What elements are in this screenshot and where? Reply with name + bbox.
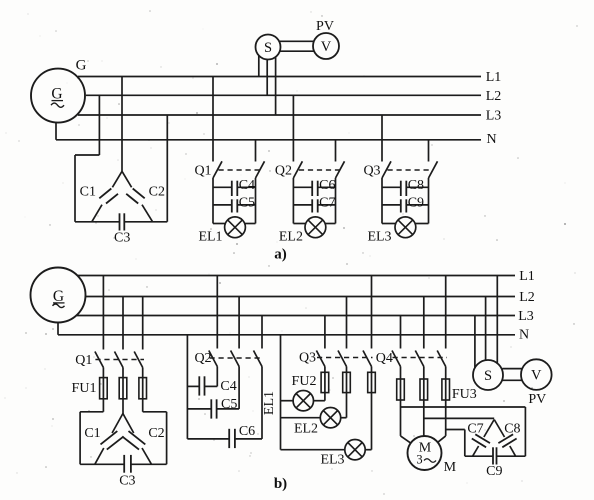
fuse FU3 pole 2 (420, 379, 428, 400)
lamp EL2 (b) (281, 393, 347, 428)
wire tap L1 to delta apex (a) (121, 77, 123, 172)
svg-text:C4: C4 (239, 178, 255, 193)
svg-text:Q4: Q4 (376, 351, 393, 366)
lamp EL3 (b) (281, 393, 372, 460)
wire Q2 left pole down (a) (292, 178, 294, 224)
lamp EL1 (213, 217, 256, 238)
selector switch S (a) (256, 35, 281, 60)
bus L1 (b) wire (77, 275, 515, 277)
svg-text:C8: C8 (408, 178, 424, 193)
wire N bracket for C4 C5 C6 (b) (186, 335, 188, 439)
svg-text:C9: C9 (408, 196, 424, 211)
switch Q2 (b) pole 1 wire+lever (209, 276, 218, 387)
capacitor C7 (293, 199, 335, 212)
capacitor C5 (b) (187, 399, 239, 418)
generator G (section a) (31, 69, 85, 123)
switch Q2 pole 1 (a) (293, 95, 302, 178)
svg-text:Q3: Q3 (363, 164, 380, 179)
svg-text:C3: C3 (119, 474, 135, 489)
svg-text:C5: C5 (239, 196, 255, 211)
wire S leads to L1 L2 L3 (a) (259, 56, 276, 115)
wire S leads to L1 L2 L3 (b) (475, 276, 497, 368)
capacitor C3 (b) (124, 455, 131, 473)
voltmeter V (b) PV (521, 359, 552, 390)
capacitor C7 (472, 420, 494, 457)
svg-text:C2: C2 (148, 426, 164, 441)
svg-text:C5: C5 (221, 397, 237, 412)
capacitor C9 (493, 447, 497, 464)
switch Q1 (b) pole 2 wire+lever (115, 297, 124, 378)
wire delta bottom (a) (75, 221, 167, 223)
capacitor C2 (122, 171, 153, 222)
capacitor C3 (120, 213, 125, 230)
fuse FU2 pole 1 (321, 372, 329, 392)
bus L3 (a) wire (78, 114, 481, 116)
svg-text:Q1: Q1 (75, 353, 92, 368)
svg-text:C3: C3 (114, 230, 130, 245)
svg-text:C7: C7 (467, 421, 483, 436)
switch Q3 pole 2 (a) (429, 140, 438, 178)
fuse FU2 pole 3 (368, 372, 376, 392)
svg-text:G: G (51, 85, 62, 102)
svg-text:S: S (484, 368, 492, 384)
selector switch S (b) (473, 360, 503, 390)
wire Q3 left pole down (a) (381, 178, 383, 224)
svg-text:L3: L3 (518, 309, 534, 324)
wire Q4 pole1 to motor and C-bank top (b) (401, 400, 526, 443)
svg-text:Q1: Q1 (194, 164, 211, 179)
capacitor C5 (213, 199, 256, 212)
switch Q3 dashed linkage (388, 169, 433, 171)
svg-text:EL2: EL2 (279, 229, 303, 244)
switch Q2 (b) pole 3 wire+lever (254, 316, 263, 439)
svg-text:C1: C1 (84, 426, 100, 441)
svg-text:EL3: EL3 (367, 229, 391, 244)
capacitor C8 (382, 181, 429, 196)
capacitor C9 (382, 199, 429, 212)
switch Q4 (b) dashed linkage (393, 357, 448, 359)
capacitor C6 (293, 181, 335, 196)
capacitor C4 (213, 181, 256, 196)
svg-text:L2: L2 (486, 89, 502, 104)
bus N (a) wire with drop from generator (56, 123, 481, 140)
svg-text:EL1: EL1 (198, 229, 222, 244)
svg-text:M: M (444, 460, 457, 475)
wire Q1 left pole down (a) (212, 178, 214, 224)
svg-text:Q2: Q2 (194, 351, 211, 366)
switch Q2 (b) pole 2 wire+lever (231, 297, 240, 409)
capacitor C8 (494, 420, 516, 457)
switch Q4 (b) pole 1 wire+lever (392, 316, 401, 380)
wire link S to V (b) (502, 369, 521, 381)
wire delta bottom (b) (80, 463, 167, 465)
svg-text:EL1: EL1 (262, 391, 277, 415)
wire tap L2 to delta left (a) (75, 95, 99, 222)
switch Q3 (b) pole 1 wire+lever (316, 316, 325, 373)
svg-text:V: V (531, 368, 542, 384)
switch Q3 (b) pole 3 wire+lever (363, 276, 372, 373)
motor M 3-phase (408, 436, 442, 470)
wire Q2 right pole down (a) (335, 178, 337, 224)
svg-text:EL2: EL2 (294, 421, 318, 436)
wire EL1 feeder from N (b) (280, 335, 282, 450)
wire Q3 right pole down (a) (428, 178, 430, 224)
svg-text:L3: L3 (486, 109, 502, 124)
switch Q1 (b) dashed linkage (95, 359, 144, 361)
fuse FU1 pole 3 (139, 378, 147, 399)
wire C-bank bottom (b) (465, 455, 526, 457)
svg-text:PV: PV (528, 392, 546, 407)
svg-text:S: S (264, 40, 272, 56)
generator G (section b) (31, 268, 86, 323)
svg-text:L2: L2 (519, 290, 535, 305)
switch Q1 pole 1 (a) (213, 77, 222, 179)
svg-text:C8: C8 (504, 421, 520, 436)
capacitor C6 (b) (187, 429, 262, 448)
wire Q1 right pole down (a) (255, 178, 257, 224)
svg-text:Q2: Q2 (275, 164, 292, 179)
switch Q1 pole 2 (a) (256, 140, 265, 178)
capacitor C1 (92, 171, 122, 222)
svg-text:C6: C6 (319, 178, 335, 193)
bus L2 (b) wire (86, 296, 516, 298)
switch Q4 (b) pole 2 wire+lever (415, 297, 424, 380)
switch Q2 pole 2 (a) (336, 140, 345, 178)
svg-text:FU1: FU1 (72, 381, 97, 396)
fuse FU3 pole 1 (397, 379, 405, 400)
svg-text:FU3: FU3 (452, 387, 477, 402)
svg-text:FU2: FU2 (292, 374, 317, 389)
svg-text:PV: PV (316, 19, 334, 34)
lamp EL2 (293, 217, 335, 238)
svg-text:Q3: Q3 (299, 351, 316, 366)
switch Q2 dashed linkage (299, 169, 340, 171)
svg-text:C6: C6 (239, 424, 255, 439)
fuse FU2 pole 2 (343, 372, 351, 392)
switch Q1 dashed linkage (219, 169, 260, 171)
switch Q4 (b) pole 3 wire+lever (437, 276, 446, 380)
wire Q4 pole2 to motor and apex (b) (424, 400, 494, 436)
svg-text:L1: L1 (486, 70, 502, 85)
svg-text:C1: C1 (80, 185, 96, 200)
wire tap L3 to delta right (a) (166, 115, 168, 222)
switch Q1 (b) pole 1 wire+lever (95, 276, 104, 378)
svg-text:G: G (76, 57, 87, 73)
wire fuse1 to delta box left (b) (80, 399, 103, 465)
fuse FU3 pole 3 (442, 379, 450, 400)
wire C-bank right edge (b) (524, 407, 526, 456)
svg-text:N: N (519, 327, 529, 342)
bus L2 (a) wire (86, 94, 481, 96)
svg-text:EL3: EL3 (320, 453, 344, 468)
svg-text:C7: C7 (319, 196, 335, 211)
wire fuse2 to delta apex (b) (122, 399, 124, 414)
wire fuse3 to delta box right (b) (143, 399, 167, 465)
capacitor C1 (b) (95, 414, 124, 465)
capacitor C2 (b) (122, 414, 151, 465)
wire C-bank left edge (b) (464, 430, 466, 457)
svg-text:3: 3 (416, 453, 422, 467)
switch Q1 (b) pole 3 wire+lever (134, 297, 143, 378)
bus L1 (a) wire (78, 76, 481, 78)
svg-text:b): b) (274, 476, 287, 492)
svg-text:V: V (321, 39, 332, 55)
fuse FU1 pole 1 (100, 378, 108, 399)
bus L3 (b) wire (77, 315, 515, 317)
svg-text:L1: L1 (519, 269, 535, 284)
voltmeter V (a) PV (313, 33, 339, 59)
switch Q3 (b) dashed linkage (317, 357, 373, 359)
bus N (b) wire with drop from generator (58, 322, 515, 335)
svg-text:C4: C4 (220, 379, 236, 394)
capacitor C4 (b) (187, 376, 217, 395)
switch Q3 pole 1 (a) (382, 115, 391, 178)
fuse FU1 pole 2 (119, 378, 127, 399)
svg-text:N: N (486, 132, 496, 147)
lamp EL1 (b) (281, 391, 325, 411)
svg-text:C2: C2 (149, 185, 165, 200)
switch Q2 (b) dashed linkage (210, 357, 264, 359)
svg-text:a): a) (274, 246, 287, 262)
lamp EL3 (382, 217, 429, 238)
wire link S to V (a) (280, 41, 314, 51)
switch Q3 (b) pole 2 wire+lever (338, 297, 347, 373)
svg-text:C9: C9 (486, 464, 502, 479)
wire Q4 pole3 to motor and C-bank left (b) (438, 400, 465, 442)
